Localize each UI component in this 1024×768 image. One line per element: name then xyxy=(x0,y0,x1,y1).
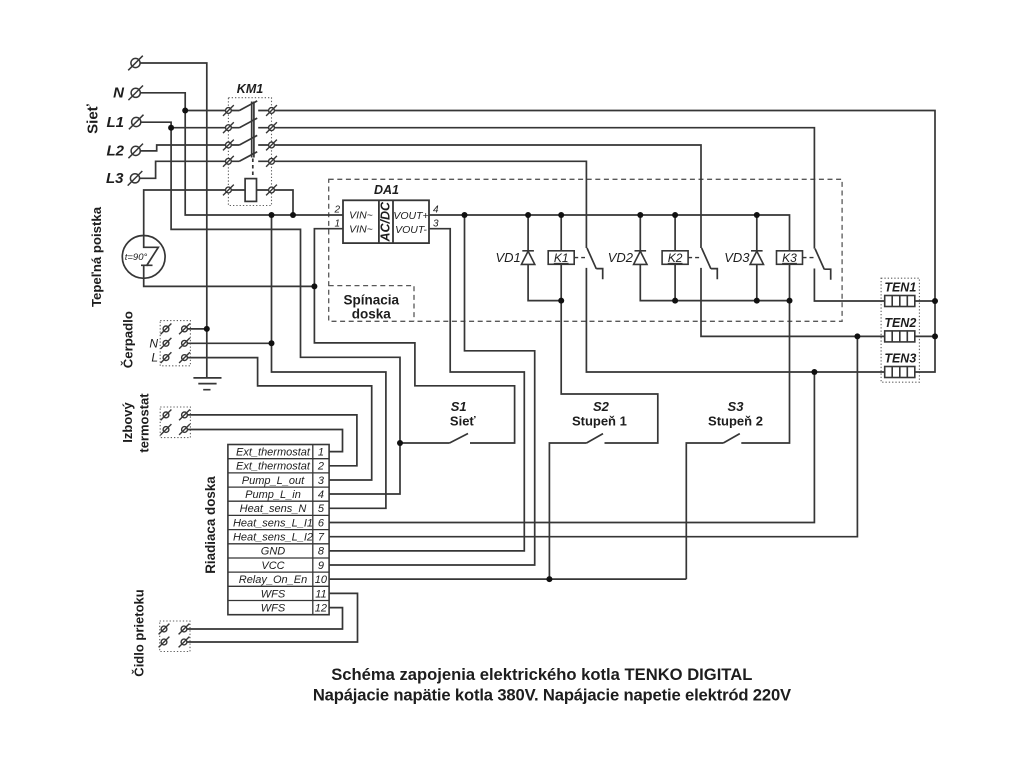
svg-text:10: 10 xyxy=(315,574,328,586)
svg-text:VOUT+: VOUT+ xyxy=(393,210,428,222)
svg-text:VOUT-: VOUT- xyxy=(395,224,427,236)
svg-text:6: 6 xyxy=(318,517,325,529)
svg-text:7: 7 xyxy=(318,532,325,544)
svg-text:Heat_sens_N: Heat_sens_N xyxy=(240,503,307,515)
svg-text:VD3: VD3 xyxy=(724,250,750,265)
svg-text:Čerpadlo: Čerpadlo xyxy=(121,311,136,368)
svg-text:N: N xyxy=(149,336,158,350)
svg-text:VIN~: VIN~ xyxy=(349,224,373,236)
svg-text:WFS: WFS xyxy=(261,588,286,600)
svg-text:t=90°: t=90° xyxy=(125,252,148,263)
svg-text:2: 2 xyxy=(333,205,340,216)
svg-text:11: 11 xyxy=(315,588,326,600)
svg-text:Tepeľná poistka: Tepeľná poistka xyxy=(89,206,104,307)
svg-text:Čidlo prietoku: Čidlo prietoku xyxy=(132,589,147,676)
svg-text:TEN3: TEN3 xyxy=(884,352,916,366)
svg-text:S2: S2 xyxy=(593,399,610,414)
svg-text:WFS: WFS xyxy=(261,602,286,614)
svg-text:1: 1 xyxy=(334,218,340,229)
svg-text:VCC: VCC xyxy=(261,560,284,572)
svg-text:L2: L2 xyxy=(106,143,124,160)
svg-text:VIN~: VIN~ xyxy=(349,209,373,221)
svg-text:S1: S1 xyxy=(451,399,467,414)
svg-text:Heat_sens_L_I1: Heat_sens_L_I1 xyxy=(233,517,313,529)
svg-text:K1: K1 xyxy=(554,251,569,265)
svg-text:doska: doska xyxy=(352,306,392,321)
svg-text:KM1: KM1 xyxy=(237,82,263,96)
svg-text:8: 8 xyxy=(318,546,325,558)
svg-text:VD2: VD2 xyxy=(608,250,634,265)
svg-text:N: N xyxy=(113,85,125,102)
svg-text:2: 2 xyxy=(317,461,324,473)
svg-text:termostat: termostat xyxy=(137,393,152,453)
svg-text:L: L xyxy=(151,351,158,365)
svg-text:Spínacia: Spínacia xyxy=(344,292,400,307)
svg-text:3: 3 xyxy=(318,475,325,487)
svg-text:4: 4 xyxy=(433,205,439,216)
svg-text:VD1: VD1 xyxy=(496,250,521,265)
svg-text:GND: GND xyxy=(261,546,286,558)
svg-text:TEN1: TEN1 xyxy=(884,281,916,295)
svg-text:Sieť: Sieť xyxy=(85,103,102,134)
svg-text:Schéma zapojenia elektrického: Schéma zapojenia elektrického kotla TENK… xyxy=(331,665,752,684)
svg-text:Ext_thermostat: Ext_thermostat xyxy=(236,447,311,459)
svg-text:AC/DC: AC/DC xyxy=(379,201,393,243)
svg-text:Napájacie napätie kotla 380V.: Napájacie napätie kotla 380V. Napájacie … xyxy=(313,686,791,705)
svg-text:4: 4 xyxy=(318,489,324,501)
svg-text:Stupeň 1: Stupeň 1 xyxy=(572,414,627,429)
svg-text:Ext_thermostat: Ext_thermostat xyxy=(236,461,311,473)
svg-text:L1: L1 xyxy=(106,114,124,131)
svg-text:5: 5 xyxy=(318,503,325,515)
svg-text:K3: K3 xyxy=(782,251,797,265)
svg-text:Stupeň 2: Stupeň 2 xyxy=(708,414,763,429)
svg-text:Riadiaca doska: Riadiaca doska xyxy=(203,476,218,574)
svg-text:Heat_sens_L_I2: Heat_sens_L_I2 xyxy=(233,532,313,544)
svg-text:9: 9 xyxy=(318,560,324,572)
svg-text:Sieť: Sieť xyxy=(450,414,477,429)
svg-text:TEN2: TEN2 xyxy=(884,316,916,330)
svg-text:L3: L3 xyxy=(106,170,124,187)
svg-text:1: 1 xyxy=(318,447,324,459)
svg-text:Izbový: Izbový xyxy=(120,402,135,443)
svg-text:Pump_L_out: Pump_L_out xyxy=(242,475,305,487)
svg-text:Pump_L_in: Pump_L_in xyxy=(245,489,301,501)
svg-text:S3: S3 xyxy=(728,399,745,414)
svg-text:DA1: DA1 xyxy=(374,183,399,197)
svg-text:12: 12 xyxy=(315,602,327,614)
svg-text:K2: K2 xyxy=(668,251,683,265)
svg-text:3: 3 xyxy=(433,218,439,229)
svg-text:Relay_On_En: Relay_On_En xyxy=(239,574,308,586)
